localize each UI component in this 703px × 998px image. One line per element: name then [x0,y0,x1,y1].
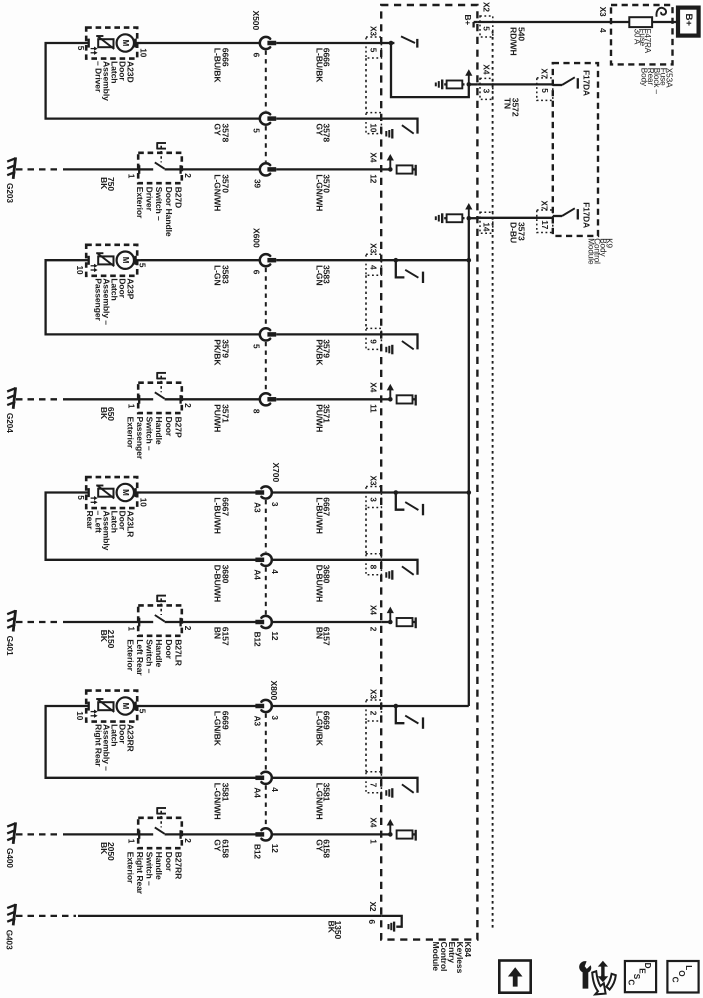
svg-text:10: 10 [138,48,148,58]
svg-text:Module: Module [431,942,441,972]
svg-text:B27P: B27P [173,417,183,438]
svg-text:5: 5 [369,48,379,53]
svg-text:GY: GY [314,839,324,852]
svg-text:5: 5 [137,263,147,268]
svg-text:X500: X500 [251,11,261,31]
svg-text:3: 3 [482,89,492,94]
ground G204 [13,387,15,409]
svg-text:M: M [121,489,130,496]
door handle switch B27P box [138,383,182,413]
svg-text:L-BU/WH: L-BU/WH [314,497,324,534]
svg-text:BK: BK [99,177,109,190]
wire 750 BK to handle switch [63,168,139,170]
svg-text:10: 10 [369,123,379,133]
wire 3572 TN - K9 to module X4 3 [477,83,552,85]
module internals row B group 3 (switch to ground) [381,560,417,575]
svg-text:X7: X7 [540,68,550,78]
svg-text:5: 5 [540,88,550,93]
momentary contact of B27P [156,372,158,379]
wire 3583 L-GN - X600 to module K84 [276,259,381,261]
wire B+ to fuse [652,21,678,23]
svg-text:BN: BN [212,627,222,639]
latch actuator symbol of A23P [98,256,113,264]
wire 3581 L-GN/WH - X800 to module K84 [272,777,381,779]
module internals row C group 4 (input node) [381,833,390,835]
svg-text:M: M [121,703,130,710]
svg-text:X3: X3 [369,26,379,36]
wire 3680 D-BU/WH - X700 to module K84 [272,559,381,561]
module internals row A group 1 [381,42,391,44]
motor M of A23LR [117,484,134,501]
svg-text:G401: G401 [5,636,15,656]
connector X500 body dotted line [265,51,267,112]
inline connector X800 row C [261,828,271,840]
svg-text:1: 1 [127,404,137,409]
svg-text:4: 4 [598,28,608,33]
latch actuator symbol of A23LR [98,489,113,497]
svg-text:Exterior: Exterior [125,417,135,449]
module input node X4 3 (resistor + B+ arrow + ground) [467,82,472,87]
svg-text:3: 3 [270,502,280,507]
svg-text:X3: X3 [369,476,379,486]
module K84 boundary box [381,5,477,940]
body control module K9 dashed box [553,63,598,236]
svg-text:G203: G203 [5,183,15,203]
svg-text:B27D: B27D [173,187,183,209]
wire 3578 GY - X500 to module K84 [276,117,381,119]
connector X3 body dotted line (left boundary, group X500) [365,58,367,112]
svg-text:8: 8 [369,565,379,570]
svg-text:L-GN: L-GN [314,265,324,286]
latch actuator symbol of A23D [98,39,113,47]
svg-text:L-BU/WH: L-BU/WH [212,497,222,534]
switch blade of B27RR [155,827,165,833]
inline connector X800 row B [261,772,271,784]
fuse F47RA 30A [629,17,652,27]
inline connector X700 row A [261,486,271,498]
svg-text:8: 8 [251,409,261,414]
door latch assembly A23P box [86,245,137,276]
svg-text:Passenger: Passenger [135,417,145,460]
svg-text:X4: X4 [369,817,379,827]
inline connector X700 row C [261,616,271,628]
svg-text:L-BU/BK: L-BU/BK [212,48,222,84]
svg-text:X600: X600 [252,228,262,248]
inline connector X800 row A [261,700,271,712]
inline connector X700 row B [261,554,271,566]
svg-text:G204: G204 [5,413,15,433]
svg-text:12: 12 [270,844,280,854]
svg-text:3: 3 [270,715,280,720]
svg-text:Switch –: Switch – [145,852,155,886]
svg-text:TN: TN [503,98,513,109]
module internals row B group 2 (switch to ground) [381,334,417,349]
svg-text:4: 4 [270,569,280,574]
switch blade of B27LR [155,615,165,621]
svg-text:X3: X3 [369,243,379,253]
wire latch A23RR to X800 row B [46,706,261,778]
svg-text:1: 1 [369,839,379,844]
wire 750 BK dashed stub [16,168,61,170]
inline connector X600 row A [260,254,270,266]
wire 6157 BN - X700 to module K84 [272,621,381,623]
switch blade of B27P [155,392,165,398]
connector X3 body dotted line (left boundary, group X800) [365,721,367,771]
svg-text:3: 3 [369,497,379,502]
wire handle switch to X600 row C [181,398,261,400]
svg-text:Door: Door [164,639,174,659]
svg-text:Door Handle: Door Handle [164,187,174,237]
svg-text:2: 2 [183,173,193,178]
svg-text:M: M [121,40,130,47]
svg-text:11: 11 [369,404,379,413]
svg-text:39: 39 [252,179,262,189]
svg-text:L-BU/BK: L-BU/BK [314,48,324,84]
svg-text:6: 6 [251,270,261,275]
svg-text:1: 1 [127,839,137,844]
svg-text:Switch –: Switch – [154,187,164,221]
fuse block X53A dashed box [611,5,673,64]
svg-text:B27LR: B27LR [173,639,183,667]
svg-text:14: 14 [482,222,492,232]
module internals row A group 3 [381,491,469,493]
svg-text:7: 7 [369,783,379,788]
connector body dotted line X4 (right of module) [492,31,494,930]
svg-text:X4: X4 [369,382,379,392]
svg-text:10: 10 [75,711,85,721]
wire 3573 D-BU - K9 to module X4 14 [477,217,552,219]
svg-text:BN: BN [314,627,324,639]
svg-text:5: 5 [482,26,492,31]
svg-text:10: 10 [138,498,148,508]
latch actuator symbol of A23RR [98,702,113,710]
ground G403 [13,904,15,926]
svg-text:Switch –: Switch – [145,639,155,673]
icon arrow box [499,961,530,993]
switch F17DA lower (unlock output) [553,215,562,217]
svg-text:B+: B+ [683,14,694,27]
svg-text:5: 5 [76,495,86,500]
wire - X4-3 node to driver lock output row [391,43,469,97]
terminal bars of A23RR [88,702,90,711]
wire 6158 GY - X800 to module K84 [272,833,381,835]
svg-text:9: 9 [369,339,379,344]
door handle switch B27D box [138,153,182,183]
svg-text:L-GN/BK: L-GN/BK [212,711,222,747]
svg-text:L-GN/WH: L-GN/WH [212,174,222,211]
svg-text:X3: X3 [369,689,379,699]
svg-text:Driver: Driver [145,187,155,212]
wire 650 BK dashed stub [16,398,61,400]
wire 3571 PU/WH - X600 to module K84 [276,398,381,400]
momentary contact of B27LR [156,595,158,602]
module internals row A group 2 [381,259,469,261]
svg-text:4: 4 [270,787,280,792]
svg-text:X2: X2 [368,902,378,912]
wire 6669 L-GN/BK - X800 to module K84 [272,705,381,707]
battery feed B+ terminal [678,8,699,36]
wire 2150 BK to handle switch [63,621,139,623]
svg-text:6: 6 [251,53,261,58]
svg-text:2: 2 [369,711,379,716]
svg-text:2: 2 [183,838,193,843]
wire latch to X500 row A [141,42,261,44]
door latch assembly A23RR box [86,691,137,722]
ground G401 [13,610,15,632]
svg-text:L-GN/WH: L-GN/WH [314,174,324,211]
svg-text:Switch –: Switch – [145,417,155,451]
svg-text:Module: Module [586,238,595,265]
terminal bars of A23LR [88,488,90,497]
svg-text:4: 4 [369,265,379,270]
svg-text:X2: X2 [482,2,492,12]
svg-text:B27RR: B27RR [173,852,183,881]
svg-text:– Driver: – Driver [93,61,103,93]
svg-text:F17DA: F17DA [582,70,592,96]
motor M of A23P [117,252,134,269]
svg-text:Rear: Rear [85,511,95,530]
connector X700 body dotted line [265,500,267,552]
wire 3579 PK/BK - X600 to module K84 [276,333,381,335]
svg-text:PK/BK: PK/BK [212,339,222,366]
svg-text:Exterior: Exterior [135,187,145,219]
svg-text:X4: X4 [482,64,492,74]
svg-text:PK/BK: PK/BK [314,339,324,366]
wire latch to X800 row A [141,705,261,707]
svg-text:5: 5 [137,709,147,714]
svg-text:A3: A3 [252,502,262,513]
ground G203 [13,157,15,179]
svg-text:Handle: Handle [154,417,164,445]
module internals row C group 1 (input node) [381,168,390,170]
svg-text:17: 17 [540,220,550,230]
svg-text:BK: BK [99,630,109,643]
wire fuse to X3 pin 4 [611,21,629,23]
inline connector X600 row C [260,393,270,405]
wire handle switch to X800 row C [181,833,261,835]
svg-text:X4: X4 [369,152,379,162]
module input node X4 14 [467,216,472,221]
svg-text:L-GN: L-GN [212,265,222,286]
svg-text:L-GN/BK: L-GN/BK [314,711,324,747]
svg-text:Right Rear: Right Rear [135,852,145,895]
inline connector X500 row B [260,113,270,125]
svg-text:M: M [121,257,130,264]
svg-text:BK: BK [99,842,109,855]
svg-text:RD/WH: RD/WH [508,27,518,56]
connector X3 body dotted line (left boundary, group X600) [365,275,367,328]
icon LOC box [667,961,698,993]
wire 3570 L-GN/WH - X500 to module K84 [276,168,381,170]
svg-text:Left Rear: Left Rear [135,639,145,676]
module internals row B group 1 (switch to ground) [381,119,417,134]
svg-text:B12: B12 [252,844,262,859]
connector X3 body dotted line (left boundary, group X700) [365,508,367,554]
wire 6667 L-BU/WH - X700 to module K84 [272,491,381,493]
svg-text:L-GN/WH: L-GN/WH [314,783,324,820]
inline connector X500 row C [260,163,270,175]
wire 1350 BK to module X2 6 [78,915,381,917]
svg-text:1: 1 [127,626,137,631]
wire 540 RD/WH to module X2 pin 5 [477,21,611,23]
svg-text:30 A: 30 A [632,29,641,45]
connector X800 body dotted line [265,714,267,771]
node B+ inside module [474,21,478,23]
svg-text:Right Rear: Right Rear [93,724,103,767]
wire latch A23D to X500 row B [46,43,261,119]
wire 650 BK to handle switch [63,398,139,400]
icon wrench and arrows [579,961,591,988]
svg-text:12: 12 [270,631,280,641]
wire 2050 BK dashed stub [16,833,61,835]
wire handle switch to X700 row C [181,621,261,623]
door latch assembly A23D box [86,28,137,59]
momentary contact of B27D [156,142,158,149]
ground G400 [13,822,15,844]
svg-text:L-GN/WH: L-GN/WH [212,783,222,820]
svg-text:6: 6 [367,920,377,925]
svg-text:C: C [626,979,635,985]
door handle switch B27LR box [138,605,182,635]
svg-text:X700: X700 [271,463,281,483]
switch F17DA upper (driver lock output) [553,84,562,86]
svg-text:G403: G403 [5,930,15,950]
svg-text:Door: Door [164,417,174,437]
svg-text:B+: B+ [463,15,473,26]
wire latch A23LR to X700 row B [46,493,261,560]
svg-text:Handle: Handle [154,639,164,667]
module internals row C group 3 (input node) [381,621,390,623]
svg-text:1: 1 [127,174,137,179]
switch blade of B27D [155,162,165,168]
svg-text:D-BU/WH: D-BU/WH [212,565,222,603]
wire latch A23P to X600 row B [46,260,261,334]
svg-text:C: C [670,977,679,983]
svg-text:Exterior: Exterior [125,639,135,671]
svg-text:Passenger: Passenger [93,278,103,321]
svg-text:Exterior: Exterior [125,852,135,884]
svg-text:2: 2 [183,626,193,631]
svg-text:PU/WH: PU/WH [314,404,324,432]
svg-text:5: 5 [251,128,261,133]
svg-text:5: 5 [251,344,261,349]
svg-text:X800: X800 [269,681,279,701]
svg-text:X4: X4 [369,605,379,615]
svg-text:Body: Body [640,68,649,87]
svg-text:PU/WH: PU/WH [212,404,222,432]
wire latch to X600 row A [141,259,261,261]
wire handle switch to X500 row C [181,168,261,170]
svg-text:2: 2 [183,403,193,408]
svg-text:GY: GY [314,123,324,136]
wire 2150 BK dashed stub [16,621,61,623]
connector X600 body dotted line [265,268,267,327]
terminal bars of A23D [88,39,90,48]
motor M of A23D [117,34,134,51]
module internal ground for X2-6 [381,916,402,927]
internal bus from X4-14 node to rear door rows [468,218,470,706]
svg-text:D-BU/WH: D-BU/WH [314,565,324,603]
svg-text:F17DA: F17DA [582,202,592,228]
door latch assembly A23LR box [86,477,137,508]
wire 2050 BK to handle switch [63,833,139,835]
wire 6666 L-BU/BK - X500 to module K84 [276,42,381,44]
module internals row C group 2 (input node) [381,398,390,400]
svg-text:Handle: Handle [154,852,164,880]
svg-text:G400: G400 [5,848,15,868]
svg-text:12: 12 [369,174,379,184]
door handle switch B27RR box [138,818,182,848]
wire latch to X700 row A [141,491,261,493]
svg-text:2: 2 [369,627,379,632]
wire 1350 BK dashed stub [16,915,76,917]
module internals row A group 4 [381,705,469,707]
momentary contact of B27RR [156,807,158,814]
motor M of A23RR [117,697,134,714]
inline connector X500 row A [260,37,270,49]
svg-text:BK: BK [99,407,109,420]
svg-text:X7: X7 [540,201,550,211]
svg-text:BK: BK [326,921,336,934]
svg-text:D-BU: D-BU [509,222,519,243]
terminal bars of A23P [88,256,90,265]
svg-text:X3: X3 [598,7,608,17]
svg-text:B12: B12 [252,632,262,647]
svg-text:A3: A3 [252,716,262,727]
module internals row B group 4 (switch to ground) [381,778,417,793]
icon DESC box [625,961,656,992]
svg-text:A4: A4 [252,787,262,798]
svg-text:A4: A4 [252,569,262,580]
svg-text:GY: GY [212,123,222,136]
inline connector X600 row B [260,328,270,340]
svg-text:Door: Door [164,852,174,872]
svg-text:5: 5 [76,46,86,51]
svg-text:GY: GY [212,839,222,852]
svg-text:10: 10 [75,266,85,276]
